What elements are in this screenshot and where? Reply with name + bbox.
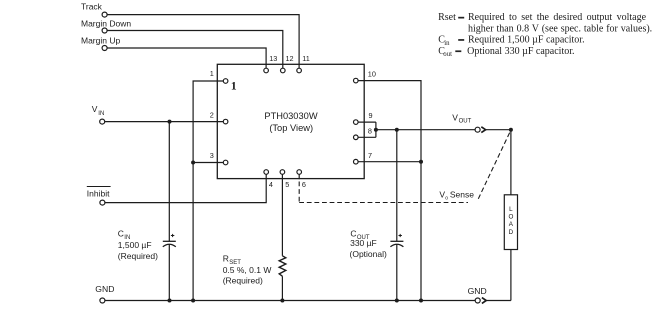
pin 11 bbox=[297, 68, 302, 73]
svg-text:Required to set the desired ou: Required to set the desired output volta… bbox=[468, 12, 647, 23]
svg-text:0.5 %, 0.1 W: 0.5 %, 0.1 W bbox=[223, 265, 272, 275]
node rail pin1 line bbox=[191, 299, 195, 303]
svg-text:out: out bbox=[443, 51, 452, 58]
svg-text:V: V bbox=[92, 104, 98, 114]
svg-text:11: 11 bbox=[302, 54, 310, 63]
svg-text:6: 6 bbox=[302, 180, 306, 189]
svg-text:Optional 330 µF capacitor.: Optional 330 µF capacitor. bbox=[467, 46, 574, 57]
terminal VIN bbox=[100, 119, 105, 124]
svg-text:Sense: Sense bbox=[450, 189, 474, 199]
wire VIN to pin 2 bbox=[105, 121, 224, 123]
svg-text:330 µF: 330 µF bbox=[350, 238, 377, 248]
pin 5 bbox=[280, 170, 285, 175]
svg-text:Inhibit: Inhibit bbox=[87, 188, 110, 198]
wire Vo Sense dashed from pin 6 bbox=[298, 182, 300, 203]
wire pin 1 to ground rail bbox=[193, 81, 223, 301]
node pin3/pin1 line bbox=[191, 161, 195, 165]
svg-text:in: in bbox=[444, 40, 450, 47]
svg-text:8: 8 bbox=[368, 126, 372, 135]
pin 7 bbox=[354, 159, 359, 164]
svg-text:Margin Up: Margin Up bbox=[81, 35, 120, 45]
svg-text:L: L bbox=[509, 206, 513, 213]
pin 12 bbox=[281, 68, 286, 73]
resistor RSET zigzag bbox=[279, 256, 286, 276]
wire Vo Sense dashed diagonal bbox=[478, 132, 510, 199]
node VOUT corner/load bbox=[509, 128, 513, 132]
pin circles bbox=[223, 68, 358, 174]
node rail RSET bbox=[280, 299, 284, 303]
wire VOUT bbox=[376, 129, 475, 131]
wire pin 3 stub bbox=[193, 162, 223, 164]
svg-text:C: C bbox=[118, 228, 124, 238]
svg-text:Margin Down: Margin Down bbox=[81, 18, 131, 28]
svg-text:9: 9 bbox=[369, 111, 373, 120]
svg-text:2: 2 bbox=[210, 110, 214, 119]
wire Inhibit to pin 4 bbox=[105, 174, 266, 202]
wire pin 10 to ground rail bbox=[358, 81, 421, 301]
svg-text:Rset: Rset bbox=[438, 12, 456, 23]
pin 6 bbox=[297, 170, 302, 175]
svg-text:4: 4 bbox=[269, 180, 273, 189]
pin 9 bbox=[354, 120, 359, 125]
pin 10 bbox=[354, 78, 359, 83]
svg-text:10: 10 bbox=[368, 70, 376, 79]
terminal Inhibit bbox=[100, 200, 105, 205]
op-amp U1 IC box PTH03030W bbox=[217, 64, 364, 178]
wire pin 5 to RSET bbox=[281, 174, 283, 256]
svg-text:OUT: OUT bbox=[459, 119, 472, 125]
svg-text:1,500 µF: 1,500 µF bbox=[118, 240, 152, 250]
svg-text:D: D bbox=[509, 229, 514, 236]
svg-text:R: R bbox=[223, 254, 229, 264]
svg-text:(Required): (Required) bbox=[118, 251, 158, 261]
capacitor C_OUT symbol bbox=[390, 241, 403, 247]
wire pin 9 stub bbox=[358, 121, 376, 123]
node pin7/gnd line bbox=[419, 160, 423, 164]
svg-text:12: 12 bbox=[286, 54, 294, 63]
wire CIN branch bbox=[168, 122, 170, 242]
svg-text:Track: Track bbox=[81, 2, 103, 12]
wire pin 7 stub bbox=[358, 161, 421, 163]
terminal GND right with arrow bbox=[475, 298, 480, 303]
svg-text:(Optional): (Optional) bbox=[350, 249, 387, 259]
node rail COUT bbox=[395, 299, 399, 303]
node VIN/CIN bbox=[168, 120, 172, 124]
wire pin 6 stub bbox=[298, 174, 300, 179]
svg-text:(Top View): (Top View) bbox=[269, 123, 313, 133]
terminal VOUT with arrow bbox=[475, 127, 480, 132]
pin 4 bbox=[264, 170, 269, 175]
wire Track bbox=[107, 15, 299, 69]
svg-text:O: O bbox=[508, 214, 513, 221]
svg-text:13: 13 bbox=[269, 54, 277, 63]
terminal GND left bbox=[100, 298, 105, 303]
LOAD box bbox=[504, 195, 517, 250]
node rail gnd line bbox=[419, 299, 423, 303]
terminal Margin Up bbox=[102, 46, 107, 51]
wire Margin Up bbox=[107, 48, 266, 68]
svg-text:Required 1,500 µF capacitor.: Required 1,500 µF capacitor. bbox=[468, 35, 585, 46]
svg-text:7: 7 bbox=[368, 151, 372, 160]
svg-text:V: V bbox=[452, 112, 458, 122]
wire ground rail bbox=[105, 300, 475, 302]
pin 1 bbox=[223, 79, 228, 84]
pin 13 bbox=[264, 68, 269, 73]
terminal Track bbox=[102, 12, 107, 17]
svg-text:GND: GND bbox=[468, 286, 487, 296]
pin 3 bbox=[223, 160, 228, 165]
capacitor C_IN symbol bbox=[163, 241, 176, 247]
wire VOUT down to LOAD bbox=[510, 130, 512, 195]
wire LOAD to ground rail bbox=[510, 250, 512, 301]
svg-text:1: 1 bbox=[231, 80, 237, 92]
wire pins 9-8 tie bar bbox=[375, 122, 377, 137]
pin 8 bbox=[354, 135, 359, 140]
svg-text:o: o bbox=[445, 195, 448, 201]
terminal Margin Down bbox=[102, 28, 107, 33]
svg-text:1: 1 bbox=[210, 69, 214, 78]
svg-text:PTH03030W: PTH03030W bbox=[264, 111, 317, 121]
svg-text:A: A bbox=[509, 221, 514, 228]
node VOUT/COUT bbox=[395, 128, 399, 132]
node rail CIN bbox=[168, 299, 172, 303]
svg-text:IN: IN bbox=[98, 111, 104, 117]
svg-text:5: 5 bbox=[285, 180, 289, 189]
pin 2 bbox=[223, 119, 228, 124]
wire Margin Down bbox=[107, 31, 283, 69]
svg-text:GND: GND bbox=[95, 284, 114, 294]
wire pin 8 stub bbox=[358, 136, 376, 138]
svg-text:3: 3 bbox=[210, 151, 214, 160]
svg-text:higher than 0.8 V (see spec. t: higher than 0.8 V (see spec. table for v… bbox=[468, 23, 652, 34]
svg-text:(Required): (Required) bbox=[223, 276, 263, 286]
node pins 9-8 output bbox=[374, 128, 378, 132]
wire COUT branch bbox=[396, 130, 398, 242]
